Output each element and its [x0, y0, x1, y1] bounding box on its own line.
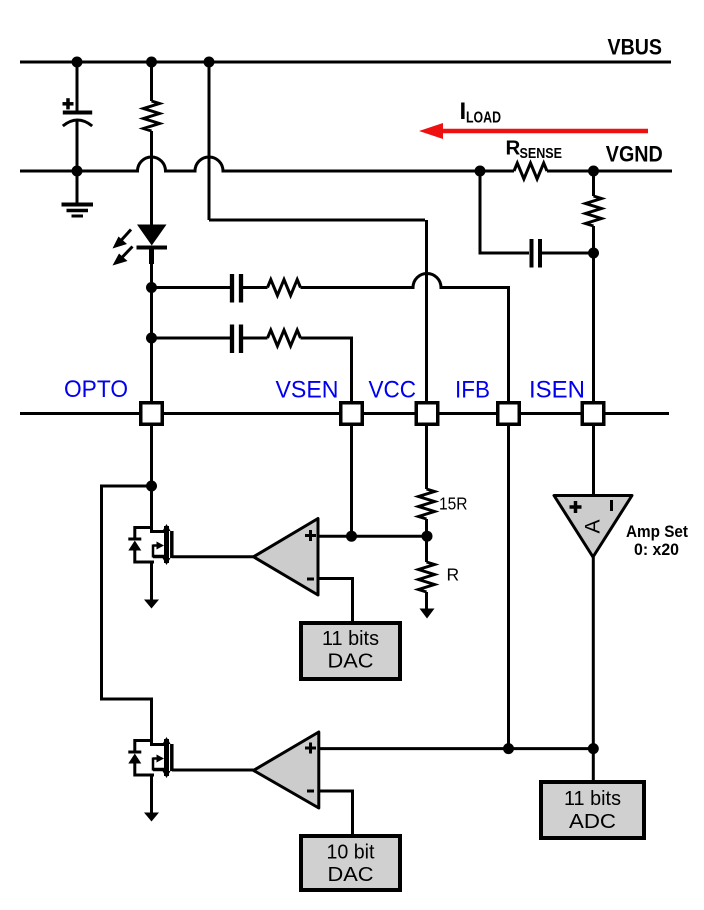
- svg-text:OPTO: OPTO: [64, 376, 128, 403]
- capacitor C4: [230, 325, 234, 354]
- wire R to ground arrow: [425, 592, 428, 610]
- junction dot RC2: [146, 333, 157, 344]
- junction dot divider-plus: [422, 531, 433, 542]
- capacitor C1 electrolytic polarized: [63, 111, 92, 115]
- svg-text:11 bits: 11 bits: [322, 627, 379, 650]
- svg-text:Amp Set: Amp Set: [626, 523, 688, 541]
- wire VBUS rail: [20, 61, 671, 64]
- wire U1 plus input line: [318, 535, 427, 538]
- svg-text:ISEN: ISEN: [529, 377, 585, 404]
- junction dot VGND-right: [588, 166, 599, 177]
- svg-text:VBUS: VBUS: [608, 35, 663, 60]
- wire IFB pin down to U2 plus line: [507, 425, 510, 749]
- wire C3 to R3: [243, 286, 268, 289]
- wire VBUS to C1: [76, 62, 79, 111]
- wire ILOAD red arrow: [441, 129, 648, 134]
- wire RC branch 1 lead: [152, 286, 231, 289]
- wire OPTO pin down to Q1: [150, 425, 153, 533]
- op-amp U3 current amp A: [554, 496, 632, 558]
- wire VCC pin down to 15R: [425, 425, 428, 489]
- wire VBUS to R1: [150, 62, 153, 101]
- transistor Q1 MOSFET with body diode: [128, 524, 172, 565]
- svg-text:A: A: [582, 519, 605, 533]
- svg-text:R: R: [506, 137, 521, 160]
- wire U2 plus input line: [319, 747, 594, 750]
- svg-text:15R: 15R: [439, 494, 468, 514]
- resistor RSENSE: [514, 163, 547, 179]
- wire Q1 gate to opamp U1 output: [172, 555, 254, 558]
- box DAC2 10 bit DAC: [301, 836, 400, 890]
- wire R4 to VSEN pin: [301, 338, 352, 402]
- svg-text:DAC: DAC: [328, 650, 374, 673]
- svg-text:R: R: [447, 565, 460, 585]
- capacitor C2: [530, 239, 534, 268]
- resistor R4: [268, 330, 301, 346]
- svg-text:11 bits: 11 bits: [564, 787, 621, 810]
- wire VGND right dot to R2: [592, 171, 595, 196]
- box ADC 11 bits ADC: [541, 782, 644, 838]
- svg-text:10 bit: 10 bit: [327, 841, 375, 864]
- wire Q2 source down: [150, 775, 153, 814]
- svg-text:VGND: VGND: [606, 142, 663, 167]
- wire RC branch 2 lead: [152, 337, 231, 340]
- junction dot VSEN-plus: [346, 531, 357, 542]
- LED light arrow 1: [121, 230, 131, 241]
- junction dot VBUS-C1: [72, 57, 83, 68]
- pin OPTO square: [141, 403, 163, 425]
- junction dot OPTO branch: [146, 481, 157, 492]
- box DAC1 11 bits DAC: [301, 623, 400, 679]
- wire OPTO branch to Q2 (left, down, right): [102, 486, 152, 746]
- wire U3 output down to ADC: [592, 557, 595, 782]
- pin IFB square: [498, 403, 520, 425]
- junction dot VGND-C1: [72, 166, 83, 177]
- wire U2 minus input to DAC2: [319, 791, 353, 836]
- wire 15R to junction: [425, 519, 428, 562]
- resistor R3: [268, 280, 301, 296]
- resistor R: [419, 562, 435, 592]
- LED light arrow 2: [122, 247, 133, 259]
- arrow Q2 source down arrow: [144, 813, 159, 822]
- arrow divider down arrow: [420, 609, 435, 619]
- wire R1 to LED: [150, 131, 153, 225]
- wire C2 to ISEN node: [542, 252, 594, 255]
- svg-text:DAC: DAC: [328, 863, 374, 886]
- capacitor C3: [230, 274, 234, 303]
- pin VSEN square: [341, 403, 363, 425]
- LED D1 photodiode: [137, 225, 167, 246]
- pin ISEN square: [582, 403, 604, 425]
- svg-text:ADC: ADC: [569, 810, 616, 833]
- junction dot VGND-left: [475, 166, 486, 177]
- junction dot VBUS-VCC: [204, 57, 215, 68]
- wire C1 to VGND: [76, 119, 79, 171]
- pin VCC square: [416, 403, 438, 425]
- arrow Q1 source down arrow: [144, 600, 159, 609]
- op-amp U1: [254, 519, 319, 596]
- wire LED to OPTO pin: [150, 255, 153, 402]
- wire R3 to IFB with hop over VCC line: [301, 274, 509, 403]
- wire ISEN pin down to amp U3: [592, 425, 595, 496]
- svg-text:SENSE: SENSE: [520, 145, 563, 162]
- junction dot VBUS-R1: [146, 57, 157, 68]
- op-amp U2: [254, 732, 319, 808]
- svg-text:VSEN: VSEN: [276, 377, 339, 404]
- junction dot C2-R2-ISEN: [588, 248, 599, 259]
- svg-text:LOAD: LOAD: [466, 110, 501, 127]
- resistor 15R: [419, 489, 435, 519]
- svg-text:IFB: IFB: [455, 377, 490, 404]
- junction dot IFB-plus2: [503, 743, 514, 754]
- svg-text:VCC: VCC: [369, 377, 417, 404]
- ground symbol: [76, 171, 79, 204]
- resistor R1: [144, 101, 160, 131]
- junction dot output-plus2: [588, 743, 599, 754]
- svg-text:0: x20: 0: x20: [634, 541, 679, 559]
- wire VGND rail with crossover hops and RSENSE gap: [20, 157, 672, 171]
- wire VBUS to VCC pin (down, right, down): [209, 62, 427, 402]
- junction dot RC1: [146, 282, 157, 293]
- wire VGND left dot down to C2: [480, 171, 529, 253]
- transistor Q2 MOSFET with body diode: [128, 737, 172, 778]
- wire pin row rail: [20, 412, 669, 415]
- wire C4 to R4: [243, 337, 268, 340]
- wire VSEN pin down to opamp U1 plus input: [350, 425, 353, 536]
- wire R2 to ISEN pin: [592, 226, 595, 402]
- wire Q2 gate to opamp U2 output: [172, 769, 254, 772]
- resistor R2: [586, 196, 602, 226]
- wire U1 minus input to DAC1: [318, 579, 353, 624]
- wire Q1 source down: [150, 562, 153, 601]
